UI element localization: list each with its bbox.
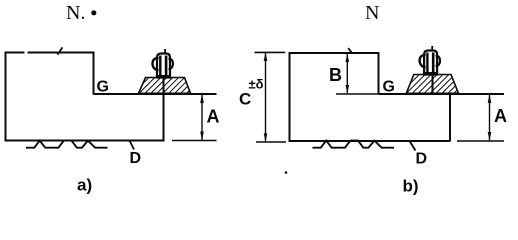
svg-text:G: G: [97, 79, 109, 96]
bullet marker after N.: [91, 10, 96, 15]
svg-text:C: C: [239, 90, 251, 109]
surface tick a: [58, 47, 63, 54]
dimension B extension line b: [336, 93, 378, 95]
plate a left edge: [5, 52, 7, 142]
plate a shelf line: [94, 93, 217, 95]
plate b top edge: [289, 52, 380, 54]
plate b bottom edge: [289, 140, 451, 142]
svg-text:a): a): [77, 176, 92, 195]
bottom extension line a: [172, 140, 217, 142]
svg-text:A: A: [207, 107, 220, 127]
dimension C extension top b: [255, 51, 286, 53]
plate b left edge: [289, 52, 291, 142]
svg-text:D: D: [130, 150, 142, 167]
plate a right edge and joint line: [163, 74, 165, 141]
plate a bottom edge: [5, 140, 165, 142]
weld bead b: [406, 75, 458, 94]
leader D a: [130, 141, 134, 150]
serration marks a: [26, 141, 108, 148]
bottom extension line b: [457, 140, 504, 142]
svg-text:b): b): [403, 177, 419, 196]
serration marks b: [313, 141, 395, 148]
weld bead a: [139, 78, 191, 94]
svg-text:D: D: [416, 151, 428, 168]
dimension C line b: [264, 52, 268, 142]
svg-text:G: G: [383, 79, 395, 96]
dimension A b: [488, 94, 492, 141]
dimension A a: [200, 94, 204, 141]
surface tick b: [348, 48, 352, 54]
dimension C extension bottom b: [256, 141, 286, 143]
dimension B line b: [346, 54, 350, 94]
svg-text:B: B: [329, 65, 342, 85]
plate b step edge: [378, 53, 380, 95]
plate b shelf line: [379, 93, 505, 95]
plate b right edge: [449, 94, 451, 141]
svg-text:A: A: [494, 106, 507, 126]
plate a top edge: [5, 52, 25, 54]
plate a step edge: [93, 53, 95, 95]
stray dot: [285, 171, 288, 174]
svg-text:±δ: ±δ: [249, 77, 264, 92]
stud a: [152, 49, 173, 78]
svg-text:N.: N.: [66, 2, 85, 24]
stud b: [420, 46, 441, 75]
joint line b: [432, 72, 434, 94]
svg-text:N: N: [365, 2, 379, 24]
leader D b: [410, 142, 416, 151]
